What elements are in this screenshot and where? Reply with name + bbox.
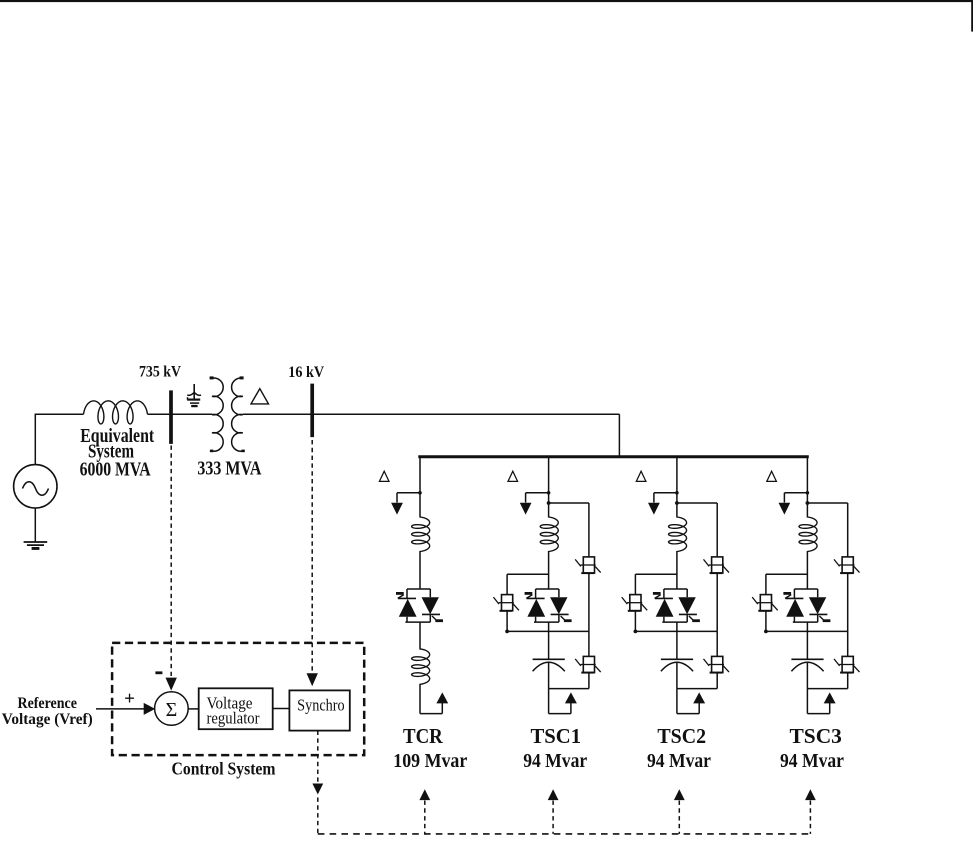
wire TSC2 bottom jog <box>677 702 699 714</box>
wire TSC3 node to bottom <box>806 689 808 714</box>
svg-text:+: + <box>124 689 135 710</box>
wire TSC3 right path to node <box>847 673 849 689</box>
node TSC2 takeoff junction <box>675 501 679 505</box>
svg-text:Control System: Control System <box>172 759 276 779</box>
wire TSC3 branch from bus <box>806 457 808 518</box>
wire TCR branch from bus <box>419 457 421 518</box>
control system dashed box <box>112 643 364 755</box>
dashed measurement line from 735 kV bus <box>170 446 172 677</box>
wire TSC2 node to bottom <box>676 689 678 714</box>
delta symbol TSC2 branch <box>636 471 646 481</box>
wire TSC1 right path middle <box>588 573 590 631</box>
wire TSC2 right path lower <box>716 631 718 656</box>
wire feed drop to SVC bus <box>618 414 620 457</box>
connector arrow TCR (bottom) <box>436 692 448 703</box>
arrowhead riser TSC2 <box>674 789 685 800</box>
wire TSC3 snubber frame left lower <box>765 611 767 632</box>
page right edge line <box>971 0 973 32</box>
breaker TSC3 upper bypass <box>834 557 860 573</box>
wire TSC3 snubber frame left upper <box>765 574 767 595</box>
inductor TSC1 coil <box>540 517 558 552</box>
transformer T1 secondary winding <box>232 376 245 452</box>
svg-text:Voltage (Vref): Voltage (Vref) <box>2 711 93 728</box>
wire reference input arrow <box>96 708 146 710</box>
node TSC1 frame bottom left <box>505 630 509 634</box>
dashed firing-pulse riser to TSC2 <box>678 801 680 834</box>
delta symbol (transformer secondary) <box>251 389 269 404</box>
svg-text:Σ: Σ <box>166 699 178 721</box>
wire sum to regulator <box>188 708 199 710</box>
breaker TSC2 upper bypass <box>704 557 730 573</box>
wire main line center segment <box>148 413 213 415</box>
wire source to main line <box>34 414 36 465</box>
wire TSC1 branch from bus <box>548 457 550 518</box>
breaker TSC3 left <box>752 595 778 611</box>
dashed firing-pulse riser to TCR <box>424 801 426 834</box>
breaker TSC1 left <box>493 595 519 611</box>
svg-text:6000 MVA: 6000 MVA <box>80 459 151 481</box>
inductor TCR upper coil <box>412 517 430 552</box>
capacitor TSC3 <box>791 659 823 671</box>
thyristor valve TSC2 (antiparallel pair) <box>653 551 700 622</box>
wire TSC1 snubber frame left upper <box>506 574 508 595</box>
grounded wye symbol (transformer primary neutral) <box>187 384 201 407</box>
inductor TSC3 coil <box>799 517 817 552</box>
wire main line left segment <box>35 413 84 415</box>
wire TSC2 snubber frame left upper <box>634 574 636 595</box>
summing junction SUM <box>155 692 189 726</box>
wire TSC1 right path to node <box>588 673 590 689</box>
inductor L1 (equivalent system impedance) <box>84 401 148 424</box>
wire TSC1 snubber frame left lower <box>506 611 508 632</box>
dashed distribution bus line <box>318 833 811 835</box>
dashed firing-pulse riser to TSC3 <box>809 801 811 834</box>
wire TSC1 capacitor to node <box>548 663 550 689</box>
wire TSC3 valve to capacitor <box>806 622 808 659</box>
wire TSC3 right path lower <box>847 631 849 656</box>
delta symbol TSC1 branch <box>508 471 518 481</box>
svg-text:TSC3: TSC3 <box>790 724 842 748</box>
connector arrow TSC3 (bottom) <box>824 692 836 703</box>
svg-text:94 Mvar: 94 Mvar <box>523 750 587 772</box>
wire TSC2 capacitor to node <box>676 663 678 689</box>
transformer T1 primary winding <box>210 376 224 452</box>
wire TSC3 capacitor to node <box>806 663 808 689</box>
arrowhead riser TSC1 <box>548 789 559 800</box>
node TSC2 frame bottom left <box>634 630 638 634</box>
ac source V1 <box>14 465 57 508</box>
wire TSC3 snubber frame top <box>766 573 808 575</box>
wire TSC2 snubber frame top <box>635 573 677 575</box>
inductor TSC2 coil <box>669 517 687 552</box>
wire TSC1 bottom jog <box>549 702 571 714</box>
wire TSC2 valve to capacitor <box>676 622 678 659</box>
wire TSC1 right path upper <box>588 503 590 558</box>
wire TSC1 valve to capacitor <box>548 622 550 659</box>
svg-text:94 Mvar: 94 Mvar <box>780 750 844 772</box>
wire TCR bottom jog <box>420 702 442 714</box>
wire TCR coil to bottom <box>419 684 421 714</box>
breaker TSC1 upper bypass <box>575 557 601 573</box>
thyristor valve TCR (antiparallel pair) <box>396 551 443 622</box>
wire TSC2 snubber frame left lower <box>634 611 636 632</box>
wire TSC2 right path takeoff <box>677 502 717 504</box>
connector arrow TSC1 (bottom) <box>565 692 577 703</box>
wire TSC3 right path takeoff <box>807 502 847 504</box>
measurement tap arrow TSC1 (top) <box>520 491 551 515</box>
svg-text:regulator: regulator <box>207 709 260 728</box>
svg-text:Synchro: Synchro <box>297 696 345 715</box>
dashed synchro output line <box>317 731 319 783</box>
wire TSC3 right path middle <box>847 573 849 631</box>
svg-text:94 Mvar: 94 Mvar <box>647 750 711 772</box>
wire TSC2 right path to node <box>716 673 718 689</box>
node TSC3 takeoff junction <box>806 501 810 505</box>
wire TSC2 branch from bus <box>676 457 678 518</box>
wire TSC3 node connector <box>807 688 847 690</box>
node TSC3 frame bottom left <box>764 630 768 634</box>
wire TSC1 right path lower <box>588 631 590 656</box>
wire TSC2 node connector <box>677 688 717 690</box>
breaker TSC1 lower bypass <box>575 656 601 672</box>
dashed measurement line from 16 kV bus <box>311 440 313 672</box>
capacitor TSC2 <box>661 659 693 671</box>
label minus sign <box>155 671 162 674</box>
wire TSC2 right path upper <box>716 503 718 558</box>
capacitor TSC1 <box>533 659 565 671</box>
svg-text:TSC1: TSC1 <box>531 724 582 748</box>
wire TSC2 frame bottom <box>635 630 717 632</box>
arrowhead riser TCR <box>419 789 430 800</box>
delta symbol TCR branch <box>379 471 389 481</box>
ground under source <box>24 508 48 550</box>
wire TSC3 right path upper <box>847 503 849 558</box>
synchro block <box>289 690 349 730</box>
wire main line right segment <box>243 413 620 415</box>
inductor TCR lower coil <box>412 649 430 684</box>
wire TCR valve to lower coil <box>419 622 421 649</box>
wire TSC1 frame bottom <box>507 630 589 632</box>
wire TSC1 snubber frame top <box>507 573 548 575</box>
wire TSC1 node connector <box>549 688 589 690</box>
page top border line <box>0 0 973 2</box>
dashed firing-pulse riser to TSC1 <box>552 801 554 834</box>
measurement tap arrow TSC3 (top) <box>779 491 810 515</box>
svg-text:333 MVA: 333 MVA <box>197 458 261 480</box>
thyristor valve TSC3 (antiparallel pair) <box>783 551 830 622</box>
breaker TSC2 left <box>622 595 648 611</box>
voltage regulator block <box>199 688 273 729</box>
thyristor valve TSC1 (antiparallel pair) <box>525 551 572 622</box>
svg-text:TCR: TCR <box>403 724 444 748</box>
wire regulator to synchro <box>273 708 290 710</box>
arrowhead into summing junction <box>166 678 177 691</box>
svg-text:735 kV: 735 kV <box>139 364 182 381</box>
svg-text:109 Mvar: 109 Mvar <box>393 750 467 772</box>
arrowhead on synchro output <box>312 784 323 795</box>
wire TSC3 frame bottom <box>766 630 848 632</box>
wire TSC1 node to bottom <box>548 689 550 714</box>
connector arrow TSC2 (bottom) <box>693 692 705 703</box>
wire TSC1 right path takeoff <box>549 502 589 504</box>
bus B1 735 kV <box>169 390 173 444</box>
arrowhead riser TSC3 <box>805 789 816 800</box>
svg-text:16 kV: 16 kV <box>288 364 325 381</box>
delta symbol TSC3 branch <box>767 471 777 481</box>
node TSC1 takeoff junction <box>547 501 551 505</box>
dashed synchro output continuation <box>317 798 319 834</box>
measurement tap arrow TCR (top) <box>391 491 422 515</box>
svg-text:TSC2: TSC2 <box>657 724 706 748</box>
wire TSC2 right path middle <box>716 573 718 631</box>
breaker TSC2 lower bypass <box>704 656 730 672</box>
SVC bus (thick) <box>418 455 809 458</box>
breaker TSC3 lower bypass <box>834 656 860 672</box>
svg-text:Reference: Reference <box>18 695 77 712</box>
arrowhead into synchro <box>307 673 318 686</box>
wire TSC3 bottom jog <box>807 702 829 714</box>
measurement tap arrow TSC2 (top) <box>648 491 679 515</box>
bus B2 16 kV <box>310 384 314 438</box>
